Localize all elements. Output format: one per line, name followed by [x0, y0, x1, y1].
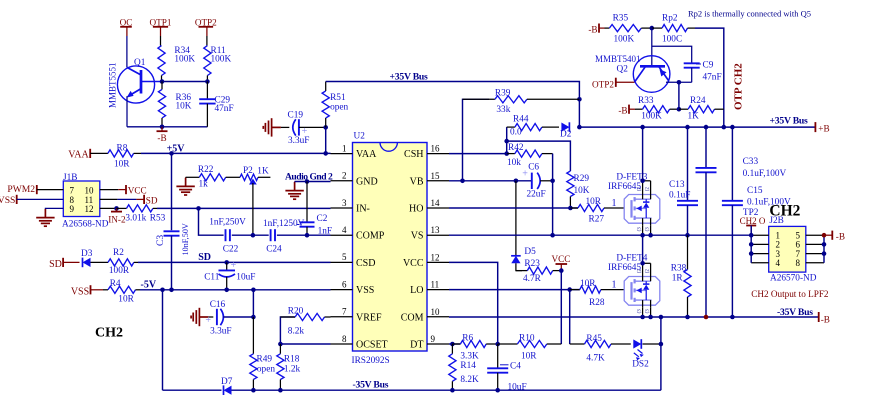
- svg-text:3: 3: [342, 198, 347, 208]
- svg-text:8.2k: 8.2k: [288, 326, 305, 336]
- port +B: [814, 122, 816, 132]
- svg-text:R20: R20: [288, 306, 304, 316]
- svg-text:8: 8: [342, 334, 347, 344]
- svg-text:R27: R27: [589, 215, 605, 225]
- node OCSET R18: [278, 342, 283, 347]
- svg-text:10K: 10K: [574, 186, 590, 196]
- resistor R4 10R: [103, 289, 108, 291]
- svg-text:10: 10: [431, 307, 441, 317]
- svg-text:+: +: [205, 315, 211, 326]
- resistor R36 10K: [161, 82, 163, 90]
- capacitor C13 0.1uF: [687, 127, 689, 201]
- node C15 +35V: [730, 125, 735, 130]
- svg-text:C22: C22: [223, 245, 239, 255]
- svg-text:9: 9: [431, 334, 436, 344]
- svg-text:R10: R10: [519, 334, 535, 344]
- wire +5V vertical: [171, 153, 173, 230]
- svg-text:R22: R22: [198, 165, 214, 175]
- svg-text:VCC: VCC: [403, 258, 424, 269]
- svg-text:10K: 10K: [176, 102, 192, 112]
- port SD at J1B: [143, 195, 145, 204]
- svg-text:P2: P2: [243, 166, 253, 176]
- node R28 left: [567, 287, 572, 292]
- svg-text:HO: HO: [409, 204, 423, 215]
- svg-text:(3: (3: [646, 227, 651, 232]
- node DS2 right: [659, 342, 664, 347]
- node audio gnd / C2: [305, 179, 310, 184]
- svg-text:D3: D3: [81, 249, 93, 259]
- node FET4 source a: [640, 315, 645, 320]
- wire CSH row: [449, 153, 508, 155]
- svg-text:5: 5: [342, 252, 347, 262]
- node C13 +35V: [685, 125, 690, 130]
- pin 9 DT: [427, 343, 449, 345]
- capacitor C2 1nF: [306, 182, 308, 223]
- node R14 bottom: [450, 388, 455, 393]
- node C16/R49 branch: [251, 288, 256, 293]
- pin 6 VSS: [331, 289, 353, 291]
- resistor R14 8.2K: [451, 344, 453, 354]
- node R42/C6/VS: [550, 233, 555, 238]
- svg-text:IRS2092S: IRS2092S: [352, 356, 390, 366]
- node J2B p2: [749, 242, 754, 247]
- node C4 bottom: [495, 388, 500, 393]
- wire DS2 to -35V vertical: [643, 343, 661, 345]
- svg-text:12: 12: [431, 252, 440, 262]
- node +35V Rp2: [722, 125, 727, 130]
- wire R44 branch vertical: [506, 127, 508, 154]
- node +5V: [169, 151, 174, 156]
- wire VSS to J1B pin8: [17, 198, 64, 200]
- svg-text:R49: R49: [257, 354, 273, 364]
- svg-text:4: 4: [342, 225, 347, 235]
- wire VS output rail: [449, 234, 751, 236]
- pin 11 LO: [427, 289, 449, 291]
- svg-text:16: 16: [431, 144, 441, 154]
- node R39 right: [577, 97, 582, 102]
- wire IN- row to U2 pin3: [157, 207, 331, 209]
- svg-text:47nF: 47nF: [703, 73, 722, 83]
- svg-text:6: 6: [342, 279, 347, 289]
- node C19 R51: [323, 125, 328, 130]
- svg-text:10k: 10k: [507, 158, 521, 168]
- svg-text:3.3uF: 3.3uF: [210, 326, 231, 336]
- svg-text:OTP CH2: OTP CH2: [733, 63, 745, 110]
- svg-text:10R: 10R: [586, 197, 602, 207]
- svg-text:12: 12: [85, 204, 94, 214]
- node IN-/COMP branch: [196, 206, 201, 211]
- node emitter rail: [160, 125, 165, 130]
- node J2B right2: [822, 242, 827, 247]
- wire -35V bottom rail left: [163, 389, 222, 391]
- wire OCSET row to U2 pin8: [280, 343, 330, 345]
- resistor R42 10k: [507, 153, 515, 155]
- svg-text:14: 14: [431, 198, 441, 208]
- svg-text:10nF,50V: 10nF,50V: [181, 223, 190, 255]
- node J2B right3: [822, 251, 827, 256]
- node Q1 base / R34 / R36: [160, 79, 165, 84]
- svg-text:COM: COM: [401, 312, 424, 323]
- svg-text:VB: VB: [410, 176, 424, 187]
- svg-text:10uF: 10uF: [508, 382, 527, 392]
- svg-text:VAA: VAA: [356, 149, 377, 160]
- svg-text:VAA: VAA: [68, 150, 89, 161]
- svg-text:+: +: [231, 260, 237, 271]
- pin 10 COM: [427, 316, 449, 318]
- svg-text:IRF6645: IRF6645: [608, 182, 641, 192]
- svg-text:DS2: DS2: [632, 359, 649, 369]
- svg-text:-35V Bus: -35V Bus: [353, 379, 389, 390]
- svg-text:-B: -B: [821, 314, 830, 324]
- resistor R35 100K: [599, 27, 605, 29]
- transistor Q2 MMBT5401: [651, 28, 653, 66]
- node R33 R24: [677, 107, 682, 112]
- node R49 bottom: [251, 388, 256, 393]
- capacitor C9 47nF: [652, 46, 692, 63]
- svg-text:R4: R4: [110, 279, 121, 289]
- node C11 bottom: [224, 288, 229, 293]
- svg-text:7: 7: [342, 307, 347, 317]
- node R51 VAA row: [323, 151, 328, 156]
- svg-text:15: 15: [431, 171, 441, 181]
- svg-text:CSH: CSH: [404, 149, 423, 160]
- diode D2: [561, 123, 569, 132]
- svg-text:10R: 10R: [114, 159, 130, 169]
- node C2 bottom: [305, 233, 310, 238]
- svg-text:10uF: 10uF: [236, 273, 255, 283]
- svg-text:(2: (2: [646, 269, 651, 274]
- wire J1B pin10 to VCC port: [100, 189, 119, 191]
- node C4 top: [495, 342, 500, 347]
- svg-text:VREF: VREF: [356, 312, 382, 323]
- svg-text:(2: (2: [646, 187, 651, 192]
- svg-text:33k: 33k: [496, 105, 510, 115]
- resistor R18 1.2k: [279, 344, 281, 354]
- resistor R2 100R: [91, 261, 109, 263]
- svg-text:+B: +B: [818, 123, 829, 133]
- svg-text:1.2k: 1.2k: [284, 364, 301, 374]
- pin J2B 5: [806, 234, 824, 236]
- wire J2B left vertical: [750, 226, 752, 263]
- resistor R23 4.7R: [516, 263, 522, 270]
- svg-text:C6: C6: [528, 162, 539, 172]
- node D2 / +35V rail: [577, 125, 582, 130]
- svg-text:U2: U2: [354, 132, 366, 142]
- resistor R11 100K: [206, 36, 208, 46]
- pin 2 GND: [331, 180, 353, 182]
- svg-text:MMBT5401: MMBT5401: [595, 54, 641, 64]
- wire VCC down to R10: [560, 271, 562, 344]
- svg-text:C11: C11: [204, 273, 220, 283]
- svg-text:C9: C9: [703, 61, 714, 71]
- node IN-2: [114, 206, 119, 211]
- svg-text:D5: D5: [524, 247, 536, 257]
- resistor R49 open: [252, 317, 254, 354]
- diode D3: [83, 258, 91, 267]
- wire OTP2 to Q2 collector: [616, 81, 635, 83]
- svg-text:A26570-ND: A26570-ND: [770, 273, 817, 283]
- svg-text:0.1uF: 0.1uF: [669, 191, 690, 201]
- svg-text:IN-2: IN-2: [108, 214, 126, 224]
- svg-text:2: 2: [342, 171, 347, 181]
- node FET3 source a: [640, 233, 645, 238]
- wire Q1 emitter down: [126, 96, 128, 127]
- svg-text:100R: 100R: [109, 266, 130, 276]
- capacitor C29 47nF: [206, 82, 208, 100]
- potentiometer P2 1K: [240, 174, 258, 180]
- pin 15 VB: [427, 180, 449, 182]
- node FET3 drain +35V: [640, 125, 645, 130]
- svg-text:1K: 1K: [688, 111, 700, 121]
- pin 13 VS: [427, 234, 449, 236]
- capacitor C22 1nF,250V: [225, 229, 227, 241]
- svg-text:MMBT5551: MMBT5551: [108, 62, 118, 108]
- svg-text:R33: R33: [638, 96, 654, 106]
- svg-text:-B: -B: [588, 25, 597, 35]
- port -B below Q1: [161, 127, 163, 131]
- svg-text:VSS: VSS: [71, 287, 89, 298]
- svg-text:D2: D2: [560, 130, 572, 140]
- ground at R22: [185, 176, 187, 179]
- node C16 R49: [251, 315, 256, 320]
- pin 14 HO: [427, 207, 449, 209]
- svg-text:C4: C4: [510, 362, 521, 372]
- node VCC R23: [559, 268, 564, 273]
- svg-text:100C: 100C: [662, 34, 682, 44]
- wire SD port to D3: [63, 261, 79, 263]
- node R39 VB row: [460, 179, 465, 184]
- wire OC to Q1 collector: [126, 36, 128, 67]
- wire FET3 drain stubs to +35V: [643, 180, 651, 182]
- node P2 wiper: [251, 233, 256, 238]
- svg-text:VSS: VSS: [0, 195, 15, 206]
- svg-text:1: 1: [342, 143, 347, 153]
- svg-text:100K: 100K: [211, 55, 232, 65]
- svg-text:C15: C15: [747, 186, 763, 196]
- svg-text:R29: R29: [574, 174, 590, 184]
- resistor R20 8.2k: [280, 317, 295, 344]
- ground at J1B: [44, 209, 46, 218]
- svg-text:4.7K: 4.7K: [586, 353, 605, 363]
- svg-text:R24: R24: [690, 96, 706, 106]
- node R44/R29 tap: [504, 139, 509, 144]
- wire J1B pin12 to IN-2 node: [100, 207, 117, 209]
- wire J1B pin9 to ground: [45, 207, 63, 210]
- node C6 right: [550, 179, 555, 184]
- svg-text:IN-: IN-: [356, 204, 370, 215]
- pin 5 CSD: [331, 261, 353, 263]
- node R42 left: [504, 151, 509, 156]
- svg-text:(2: (2: [638, 269, 643, 274]
- node R18 bottom: [278, 388, 283, 393]
- svg-text:C3: C3: [156, 235, 166, 246]
- node C15 -35V: [730, 315, 735, 320]
- wire C24 to U2 pin4: [277, 234, 331, 236]
- node C33 +35V: [704, 125, 709, 130]
- svg-text:1: 1: [612, 198, 617, 209]
- wire SD row to U2 pin5: [138, 261, 331, 263]
- resistor R10 10R: [498, 343, 518, 345]
- node C11 top: [224, 260, 229, 265]
- node C3 bottom: [169, 288, 174, 293]
- wire -35V bottom rail: [232, 389, 661, 391]
- svg-text:8: 8: [796, 258, 801, 268]
- ground Audio Gnd 2: [294, 181, 296, 184]
- port -B at -35V rail: [818, 312, 820, 322]
- node R11 C29: [205, 79, 210, 84]
- wire FET4 source stubs to -35V: [642, 307, 644, 317]
- LED DS2: [633, 339, 641, 348]
- resistor R39 33k: [463, 99, 490, 181]
- svg-text:DT: DT: [410, 340, 423, 351]
- wire D7 vertical: [162, 290, 164, 390]
- bar ground at C16: [199, 316, 208, 318]
- resistor R34 100K: [160, 36, 162, 46]
- node D7 branch: [160, 288, 165, 293]
- svg-text:47nF: 47nF: [215, 104, 234, 114]
- svg-text:10R: 10R: [580, 279, 596, 289]
- svg-text:C2: C2: [317, 214, 328, 224]
- svg-text:-35V Bus: -35V Bus: [777, 307, 813, 318]
- pin J2B 8: [806, 262, 824, 264]
- diode D5: [515, 181, 517, 256]
- transistor Q1 MMBT5551: [117, 66, 154, 103]
- wire VB row: [449, 180, 532, 182]
- resistor R45 4.7K: [570, 343, 585, 345]
- pin J2B 2: [751, 243, 769, 245]
- pin 16 CSH: [427, 153, 449, 155]
- resistor R29 10K: [567, 171, 574, 197]
- svg-text:Rp2: Rp2: [662, 14, 678, 24]
- wire PWM2 to J1B pin7: [37, 189, 64, 191]
- svg-text:+5V: +5V: [167, 144, 186, 155]
- wire VCC pin12 to C4 node: [449, 262, 498, 344]
- resistor R33 100K: [629, 108, 635, 110]
- wire HO row: [449, 207, 578, 209]
- svg-text:VCC: VCC: [552, 254, 571, 264]
- node R38 -35V: [685, 315, 690, 320]
- svg-text:(3: (3: [646, 309, 651, 314]
- resistor R53 3.01k: [117, 207, 127, 209]
- svg-text:4.7R: 4.7R: [523, 274, 542, 284]
- svg-text:3.01k: 3.01k: [125, 213, 146, 223]
- svg-text:C16: C16: [210, 300, 226, 310]
- wire IN- to COMP branch: [199, 208, 224, 235]
- resistor R28 10R: [570, 289, 580, 291]
- svg-text:R6: R6: [462, 334, 473, 344]
- wire J2B right vertical: [823, 235, 825, 263]
- wire +35V rail right: [579, 126, 815, 128]
- svg-text:R35: R35: [613, 14, 629, 24]
- svg-text:OTP1: OTP1: [150, 17, 172, 27]
- wire +5V row to U2 pin1: [141, 152, 331, 154]
- svg-text:CSD: CSD: [356, 258, 375, 269]
- svg-text:-5V: -5V: [141, 280, 157, 291]
- wire audio ground row to U2 pin2: [295, 181, 331, 183]
- node J2B right maroon: [822, 233, 827, 238]
- svg-text:R45: R45: [586, 334, 602, 344]
- svg-text:1nF,1250V: 1nF,1250V: [263, 219, 305, 229]
- svg-text:R39: R39: [495, 88, 511, 98]
- pin 3 IN-: [331, 207, 353, 209]
- port IN-2: [116, 208, 118, 211]
- resistor R27 10R: [570, 207, 578, 209]
- node J2B rail: [749, 233, 754, 238]
- wire +35V Bus top: [326, 82, 580, 128]
- resistor Rp2 100C: [652, 27, 662, 29]
- capacitor C33 0.1uF,100V: [705, 127, 707, 168]
- svg-text:1k: 1k: [199, 179, 209, 189]
- svg-text:SD: SD: [198, 252, 211, 263]
- wire COM -35V rail: [449, 316, 819, 318]
- svg-text:VSS: VSS: [356, 285, 374, 296]
- node C33 -35V maroon: [704, 315, 709, 320]
- svg-text:1R: 1R: [672, 273, 684, 283]
- svg-text:PWM2: PWM2: [7, 184, 35, 195]
- svg-text:3.3K: 3.3K: [460, 352, 479, 362]
- svg-text:J2B: J2B: [769, 216, 783, 226]
- svg-text:0.1uF,100V: 0.1uF,100V: [743, 169, 787, 179]
- svg-text:LO: LO: [410, 285, 423, 296]
- port -B at J2B: [824, 234, 832, 236]
- svg-text:R14: R14: [460, 361, 476, 371]
- pin J2B 3: [751, 253, 769, 255]
- svg-text:Q1: Q1: [134, 58, 146, 68]
- wire base row to R11/C29: [162, 81, 207, 83]
- svg-text:CH2: CH2: [95, 326, 123, 341]
- svg-text:Q2: Q2: [617, 65, 629, 75]
- bar ground at C19: [272, 126, 281, 128]
- svg-text:GND: GND: [356, 176, 378, 187]
- wire C22 to C24: [232, 234, 269, 236]
- svg-text:R44: R44: [513, 115, 529, 125]
- pin 7 VREF: [331, 316, 353, 318]
- svg-text:C19: C19: [288, 111, 304, 121]
- svg-text:0.0: 0.0: [510, 128, 522, 138]
- resistor R44 0.0: [507, 126, 515, 128]
- svg-text:1K: 1K: [257, 166, 269, 176]
- svg-text:-B: -B: [836, 232, 845, 242]
- node Q2 emitter: [677, 80, 682, 85]
- node DS2 vertical -35V: [659, 315, 664, 320]
- wire VSS port to R4: [91, 289, 104, 291]
- node D5 top: [514, 179, 519, 184]
- svg-text:VCC: VCC: [128, 186, 147, 196]
- svg-text:R18: R18: [284, 354, 300, 364]
- svg-text:(2: (2: [638, 187, 643, 192]
- svg-text:+35V Bus: +35V Bus: [770, 115, 809, 126]
- capacitor C15 0.1uF,100V: [731, 127, 733, 201]
- wire Rp2 down to R24/+35V: [695, 28, 724, 127]
- pin J2B 6: [806, 243, 824, 245]
- svg-text:D7: D7: [221, 377, 233, 387]
- svg-text:1nF,250V: 1nF,250V: [209, 217, 246, 227]
- wire FET3 source stubs to VS rail: [642, 225, 644, 235]
- node FET4 source b: [648, 315, 653, 320]
- svg-text:R8: R8: [117, 143, 128, 153]
- svg-text:8.2K: 8.2K: [460, 375, 479, 385]
- wire FET4 drain to VS rail: [643, 262, 651, 264]
- svg-text:(3: (3: [638, 309, 643, 314]
- pin J2B 7: [806, 253, 824, 255]
- svg-text:R42: R42: [508, 143, 524, 153]
- resistor R51 open: [325, 82, 327, 92]
- wire DT row: [449, 343, 460, 345]
- svg-text:CH2 O: CH2 O: [740, 216, 766, 226]
- svg-text:C13: C13: [669, 180, 685, 190]
- svg-text:open: open: [257, 364, 275, 374]
- pin J2B 4: [751, 262, 769, 264]
